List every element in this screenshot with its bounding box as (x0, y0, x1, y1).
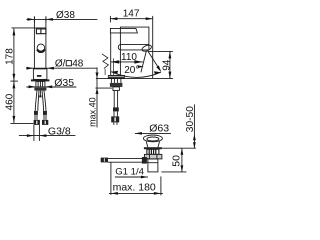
svg-text:50: 50 (170, 155, 182, 167)
svg-text:Ø38: Ø38 (56, 10, 75, 21)
svg-text:48: 48 (72, 59, 84, 70)
svg-text:147: 147 (123, 9, 140, 20)
svg-text:max. 180: max. 180 (113, 182, 156, 194)
svg-text:94: 94 (161, 59, 172, 71)
svg-text:max.40: max.40 (87, 97, 97, 127)
svg-text:178: 178 (5, 48, 16, 65)
svg-text:460: 460 (5, 93, 16, 110)
svg-text:110: 110 (121, 52, 137, 63)
svg-text:Ø63: Ø63 (149, 123, 169, 135)
svg-text:G1 1/4: G1 1/4 (115, 166, 144, 177)
svg-text:20°: 20° (124, 65, 139, 76)
svg-text:Ø/: Ø/ (55, 59, 66, 70)
svg-text:G3/8: G3/8 (48, 125, 71, 137)
svg-text:Ø35: Ø35 (54, 77, 74, 89)
svg-text:30-50: 30-50 (185, 106, 196, 132)
